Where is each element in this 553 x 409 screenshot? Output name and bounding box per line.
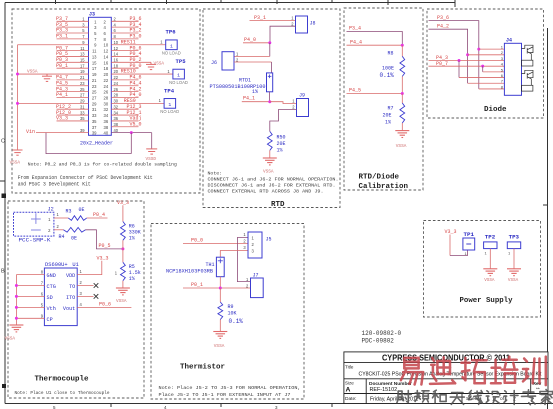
junction node P4_3	[458, 59, 461, 62]
wire V3_3 to TP1	[450, 250, 468, 256]
svg-text:32: 32	[114, 104, 119, 109]
svg-text:VSSA: VSSA	[116, 299, 127, 304]
svg-text:34: 34	[114, 110, 119, 115]
junction node P4_4	[401, 44, 404, 47]
junction node P4_1	[268, 100, 271, 103]
svg-text:TP6: TP6	[166, 29, 177, 36]
svg-text:R8: R8	[388, 51, 394, 57]
svg-text:REF-15102: REF-15102	[370, 387, 398, 393]
wire net P4_5 J3 pin 23	[57, 85, 89, 87]
svg-text:1%: 1%	[385, 120, 391, 126]
svg-text:13: 13	[80, 52, 85, 57]
svg-text:J2: J2	[48, 207, 54, 213]
wire U1 pin 7	[16, 285, 44, 287]
svg-text:21: 21	[92, 78, 97, 83]
wire TH1 to node P0_1	[219, 277, 221, 288]
RTD/Diode calibration section box	[344, 8, 423, 190]
svg-text:37: 37	[92, 125, 97, 130]
wire U1 pin 8	[16, 274, 44, 276]
junction node on VSSA bus row15	[16, 102, 19, 105]
svg-text:Calibration: Calibration	[359, 183, 409, 191]
svg-text:38: 38	[114, 122, 119, 127]
resistor R8 100E 0.1%	[380, 51, 405, 80]
svg-text:P3_1: P3_1	[56, 34, 68, 40]
svg-text:30: 30	[114, 99, 119, 104]
svg-text:From Expansion Connector of PS: From Expansion Connector of PSoC Develop…	[18, 175, 153, 181]
ground VSSA below R9	[213, 332, 227, 349]
svg-text:24: 24	[114, 81, 119, 86]
svg-text:20: 20	[114, 69, 119, 74]
wire J3 pin 40 to VSSD	[111, 132, 151, 134]
svg-text:120-09802-0: 120-09802-0	[362, 330, 402, 337]
svg-text:23: 23	[92, 84, 97, 89]
svg-text:11: 11	[92, 49, 97, 54]
svg-text:20: 20	[104, 72, 109, 77]
svg-text:P0_1: P0_1	[56, 63, 68, 69]
junction node P4_2 at J4 pin 2	[466, 53, 469, 56]
svg-text:V3_3: V3_3	[97, 256, 109, 262]
junction node U1 bus	[15, 317, 18, 320]
junction node P4_5	[401, 92, 404, 95]
svg-text:31: 31	[92, 107, 97, 112]
ground VSSA bottom-left of J3	[10, 150, 23, 166]
wire net P4_1 J3 pin 27	[57, 96, 89, 98]
connector J2 PCC-SMP-K	[14, 207, 54, 244]
svg-text:VSSA: VSSA	[396, 144, 407, 149]
svg-text:Thermocouple: Thermocouple	[35, 376, 89, 384]
svg-text:J9: J9	[299, 92, 305, 98]
wire net P4_2 J3 pin 26	[111, 91, 138, 93]
svg-text:36: 36	[114, 116, 119, 121]
connector J6	[211, 51, 239, 70]
connector J4	[501, 38, 522, 96]
svg-text:VSSA: VSSA	[508, 278, 519, 283]
svg-text:P4_5: P4_5	[349, 88, 361, 94]
svg-text:31: 31	[80, 104, 85, 109]
junction node U1 bus	[15, 306, 18, 309]
wire J5 pin 1 jumper to J7 pin 1	[237, 238, 250, 282]
svg-text:RTD/Diode: RTD/Diode	[359, 174, 400, 182]
svg-text:P0_1: P0_1	[191, 282, 203, 288]
ground VSSA under TP2	[483, 269, 497, 283]
wire net P12_0 J3 pin 33	[57, 114, 89, 116]
svg-text:V3_3: V3_3	[445, 229, 457, 235]
wire net P0_3 J3 pin 15	[57, 61, 89, 63]
svg-text:1: 1	[168, 102, 171, 108]
svg-text:1: 1	[177, 73, 180, 79]
junction node P4_0	[268, 41, 271, 44]
connector J5	[248, 232, 272, 258]
test point TP2	[484, 233, 497, 255]
svg-text:27: 27	[92, 95, 97, 100]
wire TP2 to ground	[489, 249, 491, 269]
no-connect X on TO	[94, 283, 99, 288]
svg-text:Vth: Vth	[47, 306, 56, 312]
Diode section box	[427, 9, 544, 118]
svg-text:30: 30	[104, 101, 109, 106]
ground VSSA left of U1	[5, 325, 24, 342]
wire U1 pin 9	[16, 317, 44, 319]
wire J4 pin 5	[483, 71, 505, 73]
wire J5 pin 3 to TH1	[220, 251, 248, 258]
svg-text:DS600U+: DS600U+	[45, 262, 68, 268]
svg-text:Size: Size	[345, 381, 354, 386]
svg-text:C: C	[1, 139, 5, 145]
svg-text:12: 12	[104, 49, 109, 54]
svg-text:NO LOAD: NO LOAD	[169, 80, 188, 85]
wire node P0_1 to R9	[219, 288, 221, 302]
svg-text:J3: J3	[89, 12, 95, 18]
svg-text:20E: 20E	[383, 113, 392, 119]
wire net P3_1 J3 pin 7	[57, 38, 89, 40]
wire node to R8	[401, 45, 403, 56]
svg-text:25: 25	[80, 87, 85, 92]
svg-text:17: 17	[80, 63, 85, 68]
watermark red characters	[401, 357, 546, 386]
svg-text:1%: 1%	[129, 276, 135, 282]
svg-text:Vin: Vin	[26, 129, 35, 135]
wire net P3_3 J3 pin 5	[57, 32, 89, 34]
svg-text:20E: 20E	[277, 141, 286, 147]
title block date row	[345, 396, 516, 402]
svg-text:32: 32	[104, 107, 109, 112]
wire U1 ground bus	[15, 275, 17, 325]
wire net P4_4 J3 pin 24	[111, 85, 138, 87]
connector J8	[291, 16, 315, 33]
svg-text:1: 1	[170, 43, 173, 49]
junction node P0_5	[121, 247, 124, 250]
connector J9	[292, 92, 308, 116]
svg-text:R50: R50	[277, 134, 286, 140]
svg-text:26: 26	[114, 87, 119, 92]
op-amp U1 DS600U+ body	[44, 262, 78, 326]
svg-text:P0_5: P0_5	[99, 243, 111, 249]
resistor R4 0E	[59, 228, 86, 242]
wire R6 to R5	[122, 240, 124, 262]
svg-text:15: 15	[92, 60, 97, 65]
wire net P0_4 J3 pin 14	[111, 55, 138, 57]
svg-text:TO: TO	[69, 284, 75, 290]
junction node U1 bus	[15, 295, 18, 298]
wire U1 ITO no-connect	[77, 295, 93, 297]
svg-text:CONNECT EXTERNAL RTD ACROSS J8: CONNECT EXTERNAL RTD ACROSS J8 AND J9.	[208, 189, 324, 195]
wire net P0_5 J3 pin 13	[57, 55, 89, 57]
svg-text:CONNECT J6-1 and J6-2 FOR NORM: CONNECT J6-1 and J6-2 FOR NORMAL OPERATI…	[208, 177, 339, 183]
svg-text:35: 35	[80, 116, 85, 121]
svg-text:1%: 1%	[129, 235, 135, 241]
wire net V3_3 J3 pin 35	[57, 120, 89, 122]
ground VSSA below divider	[116, 288, 130, 304]
wire net RES10 J3 pin 20	[111, 73, 173, 75]
title block frame	[344, 352, 548, 404]
wire net Vadj J3 pin 36	[111, 120, 138, 122]
svg-text:11: 11	[80, 46, 85, 51]
svg-text:of: of	[500, 396, 505, 402]
svg-text:25: 25	[92, 90, 97, 95]
svg-text:GND: GND	[47, 273, 56, 279]
svg-text:V3_3: V3_3	[56, 116, 68, 122]
ground VSSA under TP3	[507, 269, 521, 283]
svg-text:P4_4: P4_4	[350, 39, 362, 45]
wire VSSA bus left of J3	[17, 45, 19, 150]
wire node P4_1 to J9 pin 1	[270, 102, 297, 104]
wire node P4_0 to J6 pin 1	[269, 43, 271, 57]
wire J4 pin 2	[468, 54, 505, 56]
svg-text:39: 39	[80, 128, 85, 133]
svg-text:36: 36	[104, 119, 109, 124]
svg-text:14: 14	[104, 54, 109, 59]
RTD sensor RTD1 PTS080501B100RP100	[210, 73, 273, 95]
svg-text:Title: Title	[345, 365, 354, 370]
svg-text:P0_4: P0_4	[93, 212, 105, 218]
svg-text:28: 28	[114, 93, 119, 98]
resistor R6 330K 1%	[121, 222, 141, 242]
svg-text:TP3: TP3	[509, 233, 520, 240]
wire U1 pin 6	[16, 295, 44, 297]
wire J2 pin 1 to R3	[54, 217, 68, 219]
svg-text:Place J5-2 TO J5-1 FOR EXTERNA: Place J5-2 TO J5-1 FOR EXTERNAL INPUT AT…	[159, 392, 291, 398]
Thermistor section box	[151, 224, 304, 400]
svg-text:12: 12	[114, 46, 119, 51]
svg-text:J7: J7	[253, 272, 259, 278]
svg-text:38: 38	[104, 125, 109, 130]
junction node pin40 rail	[130, 131, 133, 134]
wire net RES11 J3 pin 10	[111, 44, 165, 46]
svg-text:Note: Place J5-2 TO J5-3 FOR N: Note: Place J5-2 TO J5-3 FOR NORMAL OPER…	[159, 385, 301, 391]
svg-text:Document Number: Document Number	[369, 381, 412, 387]
svg-text:J6: J6	[211, 60, 217, 66]
wire net P3_7 J3 pin 1	[57, 20, 89, 22]
wire net P4_3 J3 pin 25	[57, 91, 89, 93]
svg-text:0E: 0E	[71, 236, 77, 242]
wire J9 pin 2 to R50	[270, 110, 297, 132]
svg-text:18: 18	[104, 66, 109, 71]
svg-text:16: 16	[114, 58, 119, 63]
svg-text:VSSA: VSSA	[27, 70, 38, 75]
svg-text:17: 17	[92, 66, 97, 71]
wire net P3_4 J3 pin 4	[111, 26, 138, 28]
svg-text:27: 27	[80, 93, 85, 98]
svg-text:28: 28	[104, 95, 109, 100]
Thermocouple section box	[8, 201, 144, 398]
svg-text:16: 16	[104, 60, 109, 65]
svg-text:NCP18XH103F03RB: NCP18XH103F03RB	[166, 268, 213, 274]
note RTD connections	[208, 171, 339, 195]
junction node U1 bus	[15, 284, 18, 287]
wire U1 pin 5	[16, 306, 44, 308]
resistor R3 0E	[66, 207, 87, 220]
wire R9 to ground	[219, 320, 221, 332]
svg-text:Friday, April 08, 2011: Friday, April 08, 2011	[370, 396, 418, 402]
wire R5 to ground	[122, 281, 124, 288]
svg-text:R7: R7	[388, 105, 394, 111]
svg-text:TH1: TH1	[206, 262, 215, 268]
svg-text:DISCONNECT J6-1 and J6-2 FOR E: DISCONNECT J6-1 and J6-2 FOR EXTERNAL RT…	[208, 183, 336, 189]
svg-text:R4: R4	[59, 234, 65, 240]
resistor R7 20E 1%	[383, 103, 405, 126]
ground VSSA calibration	[395, 131, 409, 149]
wire R7 to ground	[401, 123, 403, 131]
wire node to R7	[401, 94, 403, 104]
no-connect X on ITO	[94, 294, 99, 299]
svg-text:TP1: TP1	[464, 231, 475, 238]
svg-text:P0_0: P0_0	[191, 238, 203, 244]
wire J4 pin 7	[468, 82, 505, 84]
svg-text:J8: J8	[310, 20, 316, 26]
junction node P0_1	[219, 287, 222, 290]
wire R8 to node P4_5	[401, 76, 403, 93]
svg-text:TP4: TP4	[164, 87, 175, 94]
svg-text:Power Supply: Power Supply	[460, 297, 513, 305]
junction node on VSSA bus row10	[16, 73, 19, 76]
wire J6 pin 2 to RTD1	[234, 61, 272, 63]
svg-text:P0_6: P0_6	[99, 302, 111, 308]
wire J4 pin 1	[479, 48, 505, 50]
svg-text:P3_4: P3_4	[349, 26, 361, 32]
svg-text:33: 33	[80, 110, 85, 115]
svg-text:29: 29	[92, 101, 97, 106]
svg-text:23: 23	[80, 81, 85, 86]
svg-text:R9: R9	[228, 304, 234, 310]
svg-text:33: 33	[92, 113, 97, 118]
svg-text:13: 13	[92, 54, 97, 59]
resistor R5 1.5k 1%	[115, 262, 141, 282]
svg-text:P4_0: P4_0	[244, 37, 256, 43]
svg-text:VSSA: VSSA	[10, 161, 21, 166]
wire net P0_6 J3 pin 12	[111, 50, 138, 52]
resistor R50 20E 1%	[267, 131, 285, 153]
svg-text:Note: Place U1 close to Thermo: Note: Place U1 close to Thermocouple	[15, 390, 110, 396]
title RTD/Diode Calibration	[359, 174, 409, 191]
svg-text:RTD1: RTD1	[239, 77, 251, 83]
svg-text:15: 15	[80, 58, 85, 63]
test point TP3	[507, 233, 520, 255]
svg-text:34: 34	[104, 113, 109, 118]
wire net P0_7 J3 pin 11	[57, 50, 89, 52]
thermistor TH1 NCP18XH103F03RB	[166, 257, 224, 277]
test point TP6	[160, 29, 181, 56]
svg-text:10: 10	[114, 40, 119, 45]
svg-text:B: B	[1, 269, 5, 275]
svg-text:20x2_Header: 20x2_Header	[80, 140, 113, 146]
resistor R9 10K 0.1%	[218, 302, 243, 325]
wire net P12_1 J3 pin 34	[111, 114, 138, 116]
wire net P0_2 J3 pin 16	[111, 61, 151, 63]
svg-text:21: 21	[80, 75, 85, 80]
wire U1 TO no-connect	[77, 285, 93, 287]
wire net P3_0 J3 pin 8	[111, 38, 138, 40]
Power Supply section box	[424, 221, 541, 318]
wire net P0_0 J3 pin 18	[111, 67, 138, 69]
svg-text:Note:: Note:	[208, 171, 223, 177]
transistor pair Q1 right of J4	[522, 45, 534, 66]
svg-text:A: A	[346, 387, 351, 394]
svg-text:J5: J5	[266, 237, 272, 243]
wire net V5_0 J3 pin 38	[111, 126, 138, 128]
header section box	[12, 9, 200, 193]
svg-text:40: 40	[104, 131, 109, 136]
svg-text:40: 40	[114, 128, 119, 133]
svg-text:VSSA: VSSA	[263, 170, 274, 175]
connector J3 20x2 header body	[80, 12, 113, 147]
wire net P0_5 to divider	[86, 230, 123, 249]
svg-text:VSSA: VSSA	[214, 344, 225, 349]
svg-text:and PSoC 3 Development Kit: and PSoC 3 Development Kit	[18, 182, 91, 188]
svg-text:V5_0: V5_0	[129, 121, 141, 127]
svg-text:Date:: Date:	[345, 396, 356, 402]
ground VSSD below J3	[146, 149, 158, 162]
wire U1 Vout net P0_6	[77, 306, 131, 308]
svg-text:1%: 1%	[277, 147, 283, 153]
wire Vin J3 pin 39	[36, 132, 89, 134]
transistor pair Q2 right of J4	[522, 70, 534, 91]
wire Vin drop to bottom rail	[46, 133, 131, 154]
svg-text:14: 14	[114, 52, 119, 57]
svg-text:1%: 1%	[252, 89, 258, 95]
wire net P12_2 J3 pin 31	[57, 108, 89, 110]
svg-text:0E: 0E	[79, 207, 85, 213]
svg-text:TP2: TP2	[485, 233, 496, 240]
svg-text:22: 22	[114, 75, 119, 80]
svg-text:10: 10	[104, 43, 109, 48]
wire P0_7 branch to J4 pin 5	[482, 66, 484, 72]
svg-text:NO LOAD: NO LOAD	[160, 109, 179, 114]
wire R50 to ground	[269, 150, 271, 158]
wire net P4_6 J3 pin 22	[111, 79, 138, 81]
wire net P3_2 J3 pin 6	[111, 32, 138, 34]
svg-text:18: 18	[114, 63, 119, 68]
svg-text:VDD: VDD	[66, 273, 75, 279]
wire net P0_1 J3 pin 17	[57, 67, 89, 69]
note thermistor jumpers	[159, 385, 301, 398]
svg-text:VSSA: VSSA	[5, 337, 16, 342]
wire J2 pin 2 to R4	[54, 229, 64, 231]
svg-text:Vout: Vout	[63, 306, 75, 312]
svg-text:100E: 100E	[382, 66, 394, 72]
wire net P12_3 J3 pin 32	[111, 108, 138, 110]
svg-text:PCC-SMP-K: PCC-SMP-K	[19, 237, 52, 243]
wire J4 pin 8	[479, 88, 505, 90]
svg-text:19: 19	[92, 72, 97, 77]
connector J7	[246, 272, 263, 297]
svg-text:ITO: ITO	[66, 295, 75, 301]
svg-text:Note: P0_2 and P0_3 is for co-: Note: P0_2 and P0_3 is for co-related do…	[28, 161, 177, 167]
watermark grey characters	[397, 390, 553, 405]
ground VSSA mid-left of J3	[27, 70, 52, 82]
svg-text:PDC-09802: PDC-09802	[362, 338, 395, 345]
wire P4_3 branch to J4 pin 6	[458, 60, 460, 77]
wire J4 pin 6	[459, 77, 504, 79]
svg-text:29: 29	[80, 99, 85, 104]
svg-text:VSSA: VSSA	[154, 61, 165, 66]
svg-text:26: 26	[104, 90, 109, 95]
svg-text:RTD: RTD	[271, 201, 285, 209]
svg-text:24: 24	[104, 84, 109, 89]
svg-text:35: 35	[92, 119, 97, 124]
wire net P3_5 J3 pin 3	[57, 26, 89, 28]
svg-text:P4_1: P4_1	[56, 92, 68, 98]
svg-text:0.1%: 0.1%	[380, 72, 395, 79]
ground VSSA below R50	[263, 158, 277, 175]
svg-text:0.1%: 0.1%	[229, 318, 244, 325]
svg-text:J4: J4	[506, 38, 512, 44]
svg-text:SD: SD	[47, 295, 53, 301]
svg-text:Diode: Diode	[484, 106, 507, 114]
svg-text:39: 39	[92, 131, 97, 136]
svg-text:22: 22	[104, 78, 109, 83]
wire net P4_7 J3 pin 21	[57, 79, 89, 81]
wire net P3_6 J3 pin 2	[111, 20, 138, 22]
